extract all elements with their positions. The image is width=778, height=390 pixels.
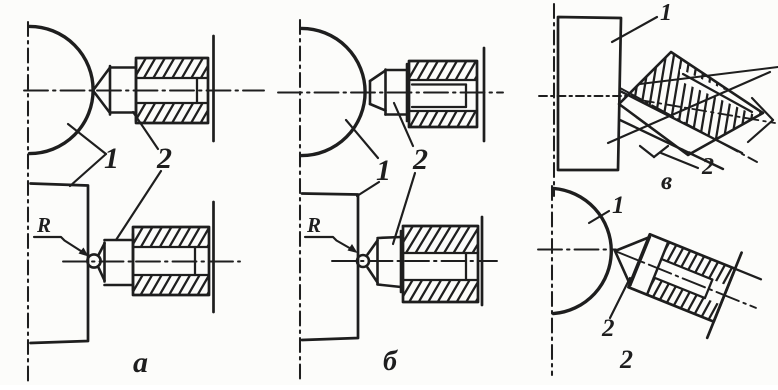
svg-text:R: R (36, 213, 51, 237)
svg-text:2: 2 (156, 142, 172, 175)
svg-text:2: 2 (701, 154, 714, 180)
svg-text:1: 1 (612, 192, 625, 219)
svg-text:а: а (133, 346, 148, 379)
svg-text:б: б (383, 346, 398, 377)
svg-text:2: 2 (412, 143, 428, 176)
svg-text:1: 1 (104, 142, 119, 175)
svg-text:2: 2 (601, 315, 615, 342)
svg-text:R: R (306, 213, 321, 237)
svg-text:2: 2 (619, 345, 633, 374)
svg-text:1: 1 (660, 0, 672, 26)
svg-text:в: в (661, 168, 672, 195)
